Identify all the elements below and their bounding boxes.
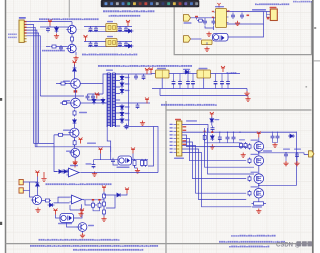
power flag +12V	[221, 66, 225, 72]
MOSFET QM2	[254, 156, 264, 166]
wire stub 2	[48, 26, 57, 27]
ground Q302	[73, 56, 78, 61]
sheet left border	[5, 0, 7, 253]
annotation right 2	[219, 241, 285, 243]
power flag VCC1	[48, 20, 52, 26]
regulator U302 LM7812	[197, 70, 211, 78]
label QM4	[251, 186, 259, 187]
zener DM1	[210, 117, 214, 124]
electrolytic cap K302b	[94, 41, 98, 47]
rail stub down	[246, 89, 248, 92]
electrolytic C311	[142, 74, 146, 80]
capacitor CM3	[271, 134, 275, 140]
label Q304	[63, 100, 70, 101]
label R312	[79, 112, 87, 113]
label Q303	[63, 81, 70, 82]
label CM6	[294, 149, 301, 150]
ground C301	[54, 34, 59, 39]
AC terminal L	[19, 180, 23, 185]
toolbar icon 1	[105, 2, 108, 5]
label Q305	[63, 130, 70, 131]
resistor R313	[57, 133, 64, 136]
pin 1 of P300	[24, 21, 26, 23]
J300 pin 6	[174, 141, 177, 143]
label D313	[125, 119, 130, 120]
toolbar icon 9	[150, 2, 153, 5]
label J300	[186, 120, 197, 121]
port OUT	[309, 151, 315, 157]
label RM2	[239, 139, 245, 140]
zener wires	[211, 117, 214, 132]
toolbar icon 12	[167, 2, 170, 5]
J300 pin 2	[174, 127, 177, 129]
label 3DG180 9013	[42, 50, 65, 52]
regulator U301 LM7815	[156, 70, 170, 78]
optocoupler U305	[60, 214, 74, 223]
cap stubs	[227, 74, 229, 89]
relay K302 stubs	[91, 41, 115, 47]
resistor R332	[103, 209, 106, 216]
annotation regulators	[98, 65, 192, 67]
power flag opto2 b	[80, 209, 84, 215]
power flag drain	[257, 132, 261, 138]
red pin label	[183, 126, 187, 127]
main rail MOS section	[182, 131, 297, 133]
zener D301	[55, 26, 59, 33]
toolbar icon 15	[184, 2, 187, 5]
toolbar icon 13	[173, 2, 176, 5]
MOSFET QM3	[254, 174, 264, 184]
power flag opto	[99, 148, 103, 154]
label QM3	[251, 172, 259, 173]
label 9013	[88, 225, 94, 226]
label input terminal 2	[8, 37, 17, 39]
margin tick left 1	[0, 98, 2, 101]
pin 4 of P300	[24, 29, 26, 31]
red mark CA4	[247, 15, 250, 17]
ground CM5	[283, 161, 288, 166]
rectifier diode D313	[120, 117, 124, 124]
label U303 PC817	[117, 167, 130, 169]
resistor RM3	[244, 142, 247, 149]
red node mark	[74, 90, 78, 92]
resistor RM1	[203, 134, 206, 141]
resistor R323	[144, 159, 147, 167]
label C332	[86, 163, 92, 164]
mos column wires	[258, 151, 260, 201]
J300 pin 7	[174, 145, 177, 147]
power flag chain top	[73, 61, 77, 67]
resistor R330	[103, 193, 106, 200]
power flag relay row 1	[126, 20, 130, 26]
wire bundle turn right	[34, 135, 111, 172]
stub2	[85, 40, 87, 43]
J300 pin 1	[174, 124, 177, 126]
label D303	[125, 90, 130, 91]
rectifier diode D303	[120, 88, 124, 95]
zener D332	[101, 98, 105, 105]
junction out-	[258, 185, 260, 187]
scrollbar mark right	[314, 60, 320, 61]
wire base 2	[58, 46, 68, 48]
ground regulators	[244, 91, 249, 96]
electrolytic cap K302c	[118, 41, 122, 47]
electrolytic cap K301d	[124, 26, 128, 32]
pin 3 of P300	[24, 26, 26, 28]
ground CM3	[272, 143, 277, 148]
red pin label	[183, 144, 187, 145]
op-amp U304A	[67, 168, 82, 177]
electrolytic cap K302d	[124, 41, 128, 47]
resistor R312	[73, 110, 76, 117]
resistor R334	[92, 202, 95, 209]
J300 pin 4	[174, 134, 177, 136]
electrolytic CM1	[218, 135, 222, 141]
transistor Q302	[66, 44, 76, 52]
junction out+	[258, 152, 260, 154]
capacitor CA2	[212, 19, 216, 25]
harness wire 7a	[205, 128, 255, 167]
J300 pin 5	[174, 138, 177, 140]
wire Q306 down	[74, 157, 76, 160]
secondary common vertical	[128, 74, 130, 126]
section line horizontal right	[166, 109, 312, 111]
filter cap x222	[220, 80, 224, 86]
filter cap x215.5	[214, 80, 218, 86]
filter cap x193	[191, 80, 195, 86]
label DM1	[214, 119, 219, 120]
relay K301	[106, 24, 117, 32]
filter cap x173.5	[172, 80, 176, 86]
electrolytic cap K302a	[89, 41, 93, 47]
resistor R303	[51, 45, 58, 48]
transformer primary wires	[103, 74, 111, 152]
J300 left pin text	[170, 124, 173, 153]
label J300 red	[175, 119, 181, 121]
power flag relay row 2	[84, 35, 88, 41]
electrolytic cap K301c	[118, 26, 122, 32]
ground CM6	[294, 161, 299, 166]
electrolytic C312	[136, 103, 140, 109]
diode D330	[73, 66, 77, 73]
label OUT+	[263, 150, 272, 151]
base wires	[56, 84, 71, 104]
UA1 pins	[214, 12, 229, 24]
red pin label	[183, 130, 187, 131]
red mark r335	[98, 199, 100, 201]
harness wire 7	[182, 125, 208, 133]
junction rail a	[219, 132, 220, 133]
wire emitter	[75, 52, 77, 55]
cap stubs	[192, 74, 194, 89]
toolbar icon 3	[116, 2, 119, 5]
rectifier diode D312	[120, 111, 124, 118]
red junction dot primary	[98, 94, 100, 96]
diode D333	[73, 118, 77, 125]
harness wire 7b	[208, 128, 255, 174]
power flag zener	[95, 93, 99, 99]
power flag +V2	[145, 98, 149, 104]
cap stubs	[215, 74, 217, 89]
label K302	[107, 36, 113, 37]
red pin mark	[195, 16, 198, 17]
label U305	[58, 223, 72, 225]
resistor RA2	[197, 19, 204, 22]
toolbar icon 7	[139, 2, 142, 5]
source resistor RS1	[252, 202, 267, 205]
diode D320	[184, 70, 191, 74]
relay K301 stubs	[91, 26, 115, 32]
opamp1 out wire	[81, 172, 158, 174]
power flag AC	[35, 171, 39, 177]
wire rect2	[115, 102, 150, 104]
electrolytic C332	[92, 163, 96, 169]
label Q306	[66, 151, 73, 152]
label RS1	[252, 206, 262, 207]
resistor R314	[73, 139, 76, 146]
wire harness from P300	[26, 22, 72, 147]
toolbar icon 6	[133, 2, 136, 5]
label QM2	[251, 154, 259, 155]
label P300	[19, 17, 26, 19]
transistor Q305	[68, 128, 79, 137]
annotation right 1	[231, 235, 276, 237]
label D302	[125, 83, 130, 84]
capacitor CM5	[284, 152, 288, 158]
ground rail 2	[245, 97, 250, 102]
resistor R311	[61, 102, 68, 105]
annotation top C	[39, 18, 99, 20]
J300 pin 8	[174, 148, 177, 150]
relay row K302 rail bottom	[88, 46, 130, 48]
resistor RA1 yellow	[202, 40, 213, 45]
power flag opto2 a	[54, 209, 58, 215]
annotation right 3	[229, 246, 269, 248]
box A network wires	[191, 12, 271, 40]
cap stubs	[187, 74, 189, 89]
chain wire top	[74, 65, 76, 80]
annotation top A	[103, 10, 154, 12]
label supervisor	[87, 143, 96, 144]
PA1 pin stubs	[267, 12, 271, 18]
wire base	[46, 46, 50, 48]
rectifier diode D301	[120, 75, 124, 82]
ground RM2	[241, 153, 246, 158]
port FB wire	[202, 42, 208, 45]
IC UA1 controller	[216, 9, 227, 28]
gate resistor RG1	[248, 143, 251, 149]
relay row K301 rail bottom	[88, 31, 130, 33]
annotation top right corner	[293, 1, 312, 3]
wire rectified +	[115, 73, 152, 75]
filter cap x188	[186, 80, 190, 86]
diode K302	[127, 44, 134, 48]
out+ wire	[259, 153, 310, 155]
relay K302 internals	[108, 41, 116, 45]
op-amp U304B	[70, 195, 85, 204]
pin 7 of P300	[24, 38, 26, 40]
toolbar icon 14	[179, 2, 182, 5]
column wires	[103, 192, 105, 217]
margin dot right	[314, 27, 316, 29]
opto lower wires	[113, 164, 138, 168]
label U302	[199, 68, 208, 69]
power flag opto 2	[131, 148, 135, 154]
port VIN	[184, 15, 191, 22]
cap stubs	[221, 74, 223, 89]
capacitor C310	[134, 74, 138, 80]
annotation top B	[109, 15, 141, 17]
label U304A	[70, 165, 78, 166]
toolbar segment shading	[103, 1, 197, 7]
opto2 wires	[56, 215, 83, 228]
X-capacitor CX2	[91, 94, 95, 100]
power flag R330	[102, 186, 106, 192]
electrolytic cap K301b	[94, 26, 98, 32]
diode DM3	[288, 134, 295, 138]
wire Q301-Q302	[71, 34, 73, 45]
lower rail MOS section	[205, 142, 240, 144]
ground T30x	[140, 121, 145, 126]
transistor Q306	[69, 148, 79, 157]
harness wire 2	[182, 139, 246, 161]
capacitor DM1b	[211, 126, 215, 132]
wire Q303 to primary	[80, 83, 103, 85]
AC terminal N	[19, 188, 23, 193]
toolbar icon 2	[110, 2, 113, 5]
zener wire right	[80, 102, 106, 104]
capacitor CM2	[226, 135, 230, 141]
power flag UA1 top	[217, 3, 220, 8]
capacitor CA4	[240, 13, 244, 19]
toolbar icon 8	[144, 2, 147, 5]
zener D331	[92, 98, 96, 105]
label input terminal	[8, 34, 17, 36]
ground R332	[101, 217, 106, 222]
capacitor CA3	[231, 13, 235, 19]
resistor R333	[44, 199, 51, 202]
gate resistor RG2	[248, 158, 251, 164]
electrolytic CM6	[295, 152, 299, 158]
transistor Q308	[77, 223, 87, 232]
ground opto	[135, 168, 140, 173]
label QM1	[251, 140, 259, 141]
chain wire to Q305	[54, 125, 75, 135]
toolbar icon 11	[162, 2, 165, 5]
wire from transformer bottom	[111, 127, 158, 173]
wires d343	[104, 194, 127, 209]
margin tick left 2	[0, 222, 2, 225]
red junction on rail	[211, 131, 213, 133]
toolbar icon 16	[190, 2, 193, 5]
label T301	[106, 70, 113, 71]
label D311	[125, 106, 130, 107]
label below J300	[174, 158, 184, 160]
label UA1	[215, 6, 224, 7]
label +12V	[227, 72, 237, 74]
resistor RM2	[240, 142, 243, 149]
pin 5 of P300	[24, 32, 26, 34]
power flag +V1	[145, 68, 149, 74]
MOSFET QM1	[254, 142, 264, 152]
cm stubs	[220, 132, 234, 143]
toolbar icon 4	[122, 2, 125, 5]
ground Q307	[35, 208, 40, 213]
pin 8 of P300	[24, 41, 26, 43]
gate resistor RG3	[248, 175, 251, 181]
harness wire 3	[182, 142, 246, 179]
transformer secondary taps	[115, 74, 120, 126]
ground box A	[206, 32, 211, 37]
wire to opamp1	[54, 171, 57, 173]
ground RS1	[256, 209, 261, 214]
transistor Q304	[69, 98, 80, 108]
rectifier diode D302	[120, 81, 124, 88]
diode D343	[115, 193, 122, 197]
filter cap x180	[178, 80, 182, 86]
diode K301	[127, 29, 134, 33]
annotation bottom 2	[73, 249, 143, 251]
drain wire	[258, 138, 260, 142]
wire to Q301	[40, 26, 68, 28]
connector P300	[19, 20, 24, 42]
section line vertical bottom middle	[165, 101, 167, 253]
red mark near PA1	[267, 17, 269, 20]
power flag reg in	[149, 68, 153, 74]
cap stubs	[179, 74, 181, 89]
inner dot right	[306, 86, 308, 88]
power flag op-amp1	[73, 162, 77, 168]
cm5 wires	[286, 152, 297, 161]
watermark glyph blocks	[297, 241, 313, 246]
sheet right border	[312, 0, 314, 253]
annotation MOS section	[161, 104, 217, 106]
harness wire 1	[182, 135, 246, 147]
power flag MOS	[210, 112, 214, 118]
transistor Q307	[31, 195, 42, 204]
connector PA1	[270, 9, 277, 21]
chain wire low	[74, 108, 76, 109]
ground lower rail	[210, 144, 215, 149]
transformer T301 windings right	[112, 73, 115, 127]
junction rail d	[239, 132, 240, 133]
capacitor C302	[59, 45, 63, 51]
relay K302	[106, 39, 117, 47]
electrolytic cap K301a	[89, 26, 93, 32]
electrolytic C330	[125, 124, 129, 130]
red mark r334	[92, 199, 94, 201]
cm3 stubs	[273, 132, 278, 143]
relay row K302 rail top	[84, 41, 132, 43]
secondary ground rail	[160, 89, 248, 97]
wire stub	[49, 26, 51, 28]
resistor R322	[141, 159, 144, 167]
reg input wire	[151, 73, 156, 75]
regulator ground rail	[152, 78, 247, 89]
resistor R302	[71, 36, 74, 43]
label K301	[107, 21, 113, 22]
port FB	[184, 36, 191, 43]
label port VIN	[184, 22, 192, 23]
label U301	[157, 68, 166, 69]
section line horizontal bottom	[6, 243, 312, 245]
annotation AC input	[46, 183, 112, 185]
label D301	[125, 77, 130, 78]
toolbar icon 10	[156, 2, 159, 5]
ground CA3	[235, 21, 240, 26]
ground Q308	[80, 233, 85, 238]
toolbar overlay	[101, 0, 200, 7]
